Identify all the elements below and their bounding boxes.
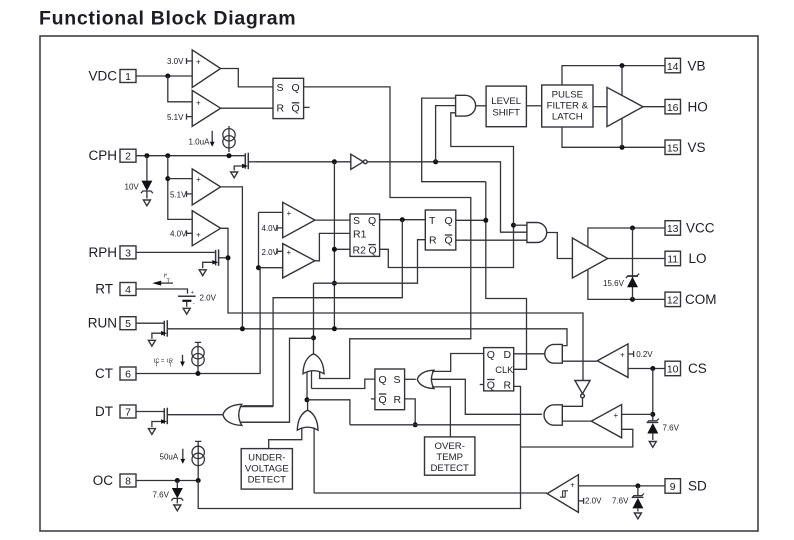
svg-text:LO: LO <box>689 251 707 266</box>
wire AND-LO output to LO buffer <box>547 233 573 259</box>
svg-text:VB: VB <box>688 58 706 73</box>
wire CPH node down to comparators U4 U5 <box>168 156 192 220</box>
svg-text:Q: Q <box>379 394 387 406</box>
arrow I2 direction <box>182 355 184 363</box>
ground arrow M4 substrate <box>148 429 155 435</box>
wire U2 output to SR1 R <box>221 107 273 109</box>
svg-text:+: + <box>570 481 575 490</box>
wire SR1 Q output long run to OR-A area <box>304 87 471 379</box>
wire OC bus south and east <box>198 386 520 508</box>
svg-text:11: 11 <box>667 254 678 266</box>
svg-text:R2: R2 <box>353 244 367 256</box>
node OC current source junction <box>196 478 201 483</box>
node VDC junction <box>165 74 170 79</box>
ground arrow M2 substrate <box>199 270 206 276</box>
wire CT node to U7 minus <box>259 267 283 269</box>
svg-text:1.0uA: 1.0uA <box>189 138 211 147</box>
svg-text:13: 13 <box>667 223 679 235</box>
pin DT 7 <box>95 404 136 419</box>
node CPH-R2 tap <box>332 159 337 164</box>
svg-text:50uA: 50uA <box>160 453 179 462</box>
transistor M4 DT FET <box>152 408 167 427</box>
svg-text:14: 14 <box>667 61 679 73</box>
wire PULSE to HO buffer <box>593 106 607 108</box>
node osc-net OR-A branch <box>311 335 316 340</box>
wire CS node down to U11 plus <box>652 369 654 421</box>
wire VS node up to HO buffer bottom <box>621 118 623 147</box>
svg-text:D: D <box>504 349 512 361</box>
svg-text:LEVEL: LEVEL <box>491 96 522 107</box>
svg-text:HO: HO <box>688 99 708 114</box>
svg-text:2.0V: 2.0V <box>585 497 602 506</box>
wire UV Qbar input tick stub <box>371 398 375 400</box>
pin 9 SD <box>665 479 707 494</box>
wire reset bus <box>350 424 521 426</box>
tick 5.1V reference <box>187 191 193 197</box>
svg-text:1: 1 <box>125 71 131 83</box>
wire UV Q output to OR-A <box>312 379 375 388</box>
gate AND-HO <box>456 95 476 116</box>
pin RUN 5 <box>88 316 136 331</box>
inverter U12 (points down) <box>575 381 590 394</box>
wire U11 minus to OC net <box>521 429 633 447</box>
zener D4 7.6V CS clamp <box>647 419 659 440</box>
gate OR-B (points up) <box>297 410 318 430</box>
comparator U7 2.0V osc lower <box>283 244 315 278</box>
svg-text:OC: OC <box>93 473 114 488</box>
wire SD pin line <box>578 485 665 487</box>
wire DT-OR in2 from branch <box>240 421 290 423</box>
current source I3 50uA <box>192 441 204 478</box>
block UNDER-VOLTAGE DETECT <box>241 449 292 490</box>
pin 10 CS <box>665 361 707 376</box>
svg-text:S: S <box>353 215 360 227</box>
svg-text:+: + <box>191 290 194 296</box>
svg-text:2.0V: 2.0V <box>200 294 217 303</box>
svg-text:9: 9 <box>670 481 676 493</box>
wire RUN pin to FET gate <box>136 322 164 324</box>
svg-text:+: + <box>614 411 619 420</box>
wire CS node to U11 plus input <box>622 413 653 415</box>
ground arrow battery <box>183 308 190 314</box>
svg-text:TEMP: TEMP <box>436 452 463 463</box>
wire SR2 Q to T-FF T <box>380 219 426 221</box>
wire CS pin line <box>628 368 665 370</box>
wire inverter out east then down to AND-LO mid input <box>367 162 527 232</box>
transistor M2 RPH FET <box>203 249 228 268</box>
svg-text:15.6V: 15.6V <box>603 279 625 288</box>
wire AND-C in2 from CS comparator output <box>562 360 597 362</box>
buffer U8 HO driver <box>607 87 643 126</box>
comparator U6 4.0V osc upper <box>283 202 315 237</box>
node VCC junction <box>630 226 635 231</box>
wire OR-B output east to reset bus <box>307 400 350 425</box>
svg-text:7.6V: 7.6V <box>663 424 680 433</box>
zener D2 15.6V VCC clamp <box>626 228 639 299</box>
gate DT-OR (points left) <box>223 404 242 425</box>
transistor M1 CPH pass FET <box>234 153 258 171</box>
wire D-FF Qbar tick stub <box>480 384 484 386</box>
svg-text:2.0V: 2.0V <box>262 248 279 257</box>
wire OR-C in2 from over-temp riser <box>432 387 450 437</box>
svg-text:+: + <box>287 209 292 218</box>
wire DT line to DT-OR gate <box>167 414 223 416</box>
gate AND-C (points left) <box>545 344 563 363</box>
inverter U3 <box>351 154 364 169</box>
comparator U13 SD schmitt (points left) <box>547 475 578 513</box>
svg-text:DT: DT <box>95 404 113 419</box>
svg-text:Q: Q <box>487 379 495 391</box>
wire HO buffer output to pin 16 <box>643 106 665 108</box>
svg-text:5.1V: 5.1V <box>170 190 187 199</box>
svg-text:4.0V: 4.0V <box>262 224 279 233</box>
svg-text:3: 3 <box>125 247 131 259</box>
wire OC pin line <box>136 480 198 482</box>
svg-text:R1: R1 <box>353 228 367 240</box>
node SD junction <box>635 483 640 488</box>
svg-text:+: + <box>620 350 625 359</box>
node NET-A AND-LO in1 tap <box>511 223 516 228</box>
ground arrow D3 <box>174 505 181 511</box>
pin RT 4 <box>95 282 136 297</box>
node RUN bus comparator tap <box>240 326 245 331</box>
svg-text:10V: 10V <box>125 183 140 192</box>
svg-text:UNDER-: UNDER- <box>248 453 285 464</box>
wire AND-HO output to LEVEL SHIFT <box>476 105 486 107</box>
tick 4.0V reference <box>277 225 283 231</box>
svg-text:DETECT: DETECT <box>248 475 287 486</box>
ground arrow M3 substrate <box>148 340 155 346</box>
svg-text:Q: Q <box>368 215 376 227</box>
zener D3 7.6V OC clamp <box>171 481 183 504</box>
node R2 junction <box>332 247 337 252</box>
node CPH-inv to AND-HO tap <box>433 159 438 164</box>
node UV R reset bus junction <box>413 422 418 427</box>
svg-text:Q: Q <box>445 235 453 247</box>
svg-text:2: 2 <box>125 151 131 163</box>
svg-text:OVER-: OVER- <box>435 441 465 452</box>
ground arrow D5 <box>634 513 641 519</box>
svg-text:Functional Block Diagram: Functional Block Diagram <box>39 8 296 30</box>
svg-text:SHIFT: SHIFT <box>492 108 520 119</box>
latch UV (Q S / Qb R) <box>375 369 405 410</box>
svg-text:LATCH: LATCH <box>552 112 583 123</box>
ground arrow D4 <box>649 442 656 448</box>
wire VS rail <box>562 127 665 147</box>
wire COM rail <box>588 270 665 299</box>
node comparator feed split <box>165 176 170 181</box>
pin CPH 2 <box>88 148 136 163</box>
node RUN bus CPH net tap <box>332 326 337 331</box>
gate OR-C (points left) <box>417 370 434 388</box>
node RPH drain junction <box>226 255 231 260</box>
wire LO output to pin 11 <box>608 258 665 260</box>
svg-text:VCC: VCC <box>686 221 715 236</box>
pin 15 VS <box>665 140 706 155</box>
wire T-FF Qbar to AND-LO in3 <box>456 239 527 241</box>
node CPH zener tap <box>144 153 149 158</box>
comparator U11 CS trip (points left) <box>591 405 621 438</box>
node VS junction <box>620 145 625 150</box>
svg-text:CT: CT <box>95 366 113 381</box>
svg-text:DETECT: DETECT <box>431 463 470 474</box>
node CT current source junction <box>196 371 201 376</box>
svg-text:Q: Q <box>292 82 300 94</box>
wire OR-B output up to junction <box>307 400 309 410</box>
wire OR-C mid input from AND-D output <box>432 379 542 414</box>
wire UV R to reset bus <box>405 399 416 425</box>
comparator U2 5.1V <box>192 90 220 126</box>
block OVER-TEMP DETECT <box>425 437 475 475</box>
transistor M3 RUN FET <box>152 320 167 339</box>
wire AND-HO in2 from CPH-inv node <box>436 106 456 162</box>
gate AND-D (points left) <box>544 405 562 425</box>
svg-text:+: + <box>196 98 201 107</box>
svg-text:Q: Q <box>292 103 300 115</box>
svg-text:3.0V: 3.0V <box>167 57 184 66</box>
wire osc net east to D-FF CLK riser <box>314 297 403 299</box>
svg-text:S: S <box>394 374 401 386</box>
tick 5.1V reference <box>187 114 193 120</box>
comparator U5 4.0V <box>192 211 220 246</box>
comparator U1 3.0V <box>192 50 220 88</box>
tick 2.0V reference <box>578 498 583 504</box>
pin RPH 3 <box>88 245 136 260</box>
svg-text:+: + <box>287 248 292 257</box>
wire CPH pin line <box>136 155 245 157</box>
wire SR2 R2 input from CPH net <box>334 162 350 329</box>
wire osc net south and west NET-B <box>243 220 403 406</box>
wire CPH after FET to inverter <box>256 161 351 163</box>
node VB junction <box>620 63 625 68</box>
wire OR-A inputs risers <box>307 371 320 400</box>
pin CT 6 <box>95 366 136 381</box>
pin OC 8 <box>93 473 136 488</box>
buffer U9 LO driver <box>572 238 607 278</box>
wire node to U4 plus <box>168 178 192 180</box>
svg-text:VOLTAGE: VOLTAGE <box>245 464 289 475</box>
zener D5 7.6V SD clamp <box>632 486 644 512</box>
wire SD comparator output to OR-B riser <box>314 492 547 494</box>
svg-text:+: + <box>196 231 201 240</box>
wire CPH reset net west leg down to OR-A <box>313 283 315 355</box>
svg-text:7: 7 <box>125 407 131 419</box>
pin 12 COM <box>665 292 717 307</box>
node CS junction <box>650 366 655 371</box>
pin 16 HO <box>665 99 708 114</box>
svg-text:FILTER &: FILTER & <box>547 101 589 112</box>
tick 0.2V reference <box>628 351 634 357</box>
svg-text:7.6V: 7.6V <box>153 491 170 500</box>
pin 14 VB <box>665 58 706 73</box>
wire T-FF Q output to AND-HO / CLK riser <box>456 182 527 370</box>
node CPH comparator tap <box>165 153 170 158</box>
svg-text:5.1V: 5.1V <box>167 113 184 122</box>
svg-text:VDC: VDC <box>88 69 117 84</box>
node oscillator Q node <box>400 217 405 222</box>
svg-text:VS: VS <box>688 140 706 155</box>
wire VCC rail <box>588 228 665 247</box>
svg-text:+: + <box>196 58 201 67</box>
pin VDC 1 <box>88 69 136 84</box>
wire NET-A stub to AND-LO in1 <box>514 224 527 226</box>
node CT sawtooth junction <box>256 265 261 270</box>
wire CT pin line <box>136 268 260 374</box>
comparator U4 5.1V <box>192 169 220 205</box>
battery B1 2.0V reference <box>178 290 196 307</box>
tick 3.0V reference <box>187 58 193 64</box>
wire branch west to DT-OR in2 <box>243 338 314 422</box>
wire AND-HO in1 from T-Q <box>422 98 486 182</box>
wire CPH reset net to T-FF R <box>314 240 426 284</box>
latch D-FF <box>484 348 514 391</box>
node T-Q junction <box>483 218 488 223</box>
svg-text:R: R <box>394 394 402 406</box>
svg-text:CPH: CPH <box>88 148 117 163</box>
svg-text:SD: SD <box>688 479 707 494</box>
gate AND-LO <box>527 223 547 243</box>
wire SR1 Qbar stub <box>304 106 310 108</box>
wire RT pin to battery <box>136 289 188 294</box>
block PULSE FILTER LATCH <box>542 85 593 127</box>
node OC zener tap <box>175 478 180 483</box>
svg-text:-: - <box>193 301 195 307</box>
svg-text:=: = <box>161 359 164 365</box>
arrow I1 direction <box>211 131 213 143</box>
svg-text:RT: RT <box>95 282 113 297</box>
wire U4 output to RUN bus <box>221 187 243 329</box>
wire AND-C output to D input <box>514 353 545 355</box>
wire OR-C in1 from D-FF Q <box>432 354 484 372</box>
svg-text:S: S <box>277 82 284 94</box>
wire DT-OR in1 from osc net <box>240 406 273 408</box>
latch SR2 <box>350 214 380 256</box>
current source I1 1.0uA <box>223 126 235 152</box>
wire U7 output to SR2 R1 <box>315 233 350 260</box>
wire VDC pin to node <box>136 75 192 77</box>
wire U11 output to AND-D in2 <box>562 420 591 422</box>
ground arrow M1 substrate <box>231 172 238 178</box>
arrow IT current direction <box>160 282 173 284</box>
node CPH reset net junction <box>332 281 337 286</box>
svg-text:8: 8 <box>125 476 131 488</box>
wire RPH pin to FET gate <box>136 251 216 253</box>
svg-text:COM: COM <box>685 292 717 307</box>
latch SR1 <box>273 78 304 118</box>
gate OR-A (points up) <box>303 354 324 374</box>
wire RUN bus <box>167 329 567 346</box>
svg-text:16: 16 <box>667 102 679 114</box>
wire OR-C output to UV S <box>405 378 416 380</box>
svg-text:4.0V: 4.0V <box>170 230 187 239</box>
wire OR-B in1 from UV detect <box>269 428 302 449</box>
svg-text:RPH: RPH <box>88 245 117 260</box>
schmitt symbol <box>560 491 568 497</box>
wire OR-B in2 from SD comparator <box>313 428 315 493</box>
svg-text:CLK: CLK <box>495 365 514 375</box>
wire VDC node down to comparator U2 <box>168 76 192 102</box>
wire LEVEL SHIFT to PULSE FILTER <box>526 105 541 107</box>
zener D1 10V <box>141 156 153 199</box>
comparator U10 CS 0.2V (points left) <box>597 344 628 378</box>
svg-text:PULSE: PULSE <box>552 90 583 101</box>
ground arrow below D1 <box>143 200 150 206</box>
block LEVEL SHIFT <box>486 86 526 127</box>
svg-text:6: 6 <box>125 369 131 381</box>
svg-text:Q: Q <box>379 374 387 386</box>
svg-text:R: R <box>429 235 437 247</box>
svg-text:Q: Q <box>445 215 453 227</box>
node COM junction <box>630 297 635 302</box>
wire DT pin to FET gate <box>136 411 164 413</box>
wire SR2 Qbar NET-A to AND-LO in1 and AND-HO in3 <box>380 113 514 268</box>
svg-text:T: T <box>429 215 436 227</box>
wire VB node down to HO buffer top <box>621 66 623 96</box>
pin 11 LO <box>665 251 707 266</box>
svg-text:5: 5 <box>125 318 131 330</box>
tick 2.0V reference <box>277 248 283 254</box>
tick 4.0V reference <box>187 230 193 236</box>
wire VB rail <box>562 66 665 85</box>
node CPH current source tap <box>227 153 232 158</box>
svg-text:Q: Q <box>487 349 495 361</box>
node OR-B output junction <box>305 397 310 402</box>
svg-text:12: 12 <box>667 295 679 307</box>
wire U1 output to SR1 S <box>221 69 273 87</box>
pin 13 VCC <box>665 221 715 236</box>
svg-text:RUN: RUN <box>88 316 117 331</box>
arrow I3 direction <box>182 449 184 460</box>
svg-text:4: 4 <box>125 284 131 296</box>
svg-text:Q: Q <box>369 244 377 256</box>
svg-text:10: 10 <box>667 364 679 376</box>
wire U6 output to SR2 S <box>315 219 350 221</box>
node CS lower comparator junction <box>650 412 655 417</box>
svg-text:+: + <box>196 175 201 184</box>
svg-text:R: R <box>277 103 285 115</box>
wire CT riser to U6 plus <box>259 212 283 267</box>
svg-text:CS: CS <box>688 361 707 376</box>
wire U12 output to AND-D in1 <box>562 398 582 407</box>
svg-text:0.2V: 0.2V <box>636 350 653 359</box>
wire U5 output down to RPH node then east to inverter U12 <box>221 228 583 380</box>
latch T-FF <box>425 210 456 250</box>
svg-text:R: R <box>504 379 512 391</box>
svg-text:7.6V: 7.6V <box>612 497 629 506</box>
svg-text:15: 15 <box>667 143 679 155</box>
current source I2 CT charge <box>192 342 204 371</box>
